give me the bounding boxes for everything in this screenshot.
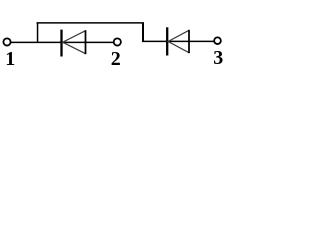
svg-text:2: 2 bbox=[111, 48, 121, 70]
svg-text:1: 1 bbox=[5, 48, 15, 70]
svg-text:3: 3 bbox=[213, 47, 223, 69]
